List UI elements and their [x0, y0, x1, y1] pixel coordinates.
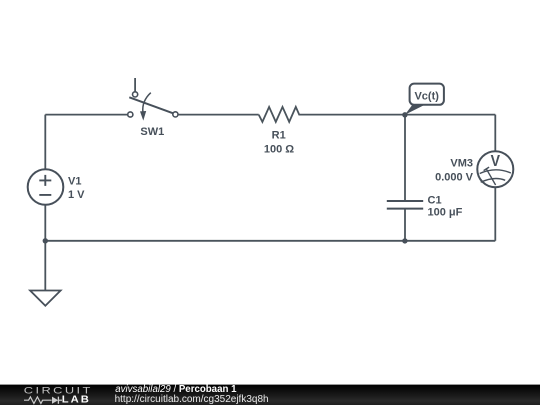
- svg-text:VM3: VM3: [450, 157, 473, 169]
- svg-text:R1: R1: [272, 129, 286, 141]
- svg-text:V: V: [491, 153, 501, 170]
- svg-text:V1: V1: [68, 176, 81, 188]
- svg-text:100 Ω: 100 Ω: [264, 143, 294, 155]
- svg-text:C1: C1: [428, 194, 442, 206]
- svg-text:SW1: SW1: [140, 126, 164, 138]
- svg-text:1 V: 1 V: [68, 189, 85, 201]
- svg-text:100 μF: 100 μF: [428, 206, 463, 218]
- svg-text:LAB: LAB: [62, 394, 91, 405]
- svg-text:http://circuitlab.com/cg352ejf: http://circuitlab.com/cg352ejfk3q8h: [115, 394, 269, 405]
- svg-text:0.000 V: 0.000 V: [435, 172, 474, 184]
- svg-text:Vc(t): Vc(t): [414, 90, 439, 102]
